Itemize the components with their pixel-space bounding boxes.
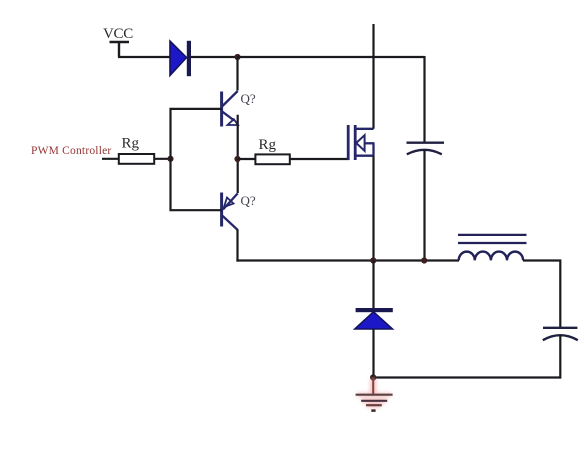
svg-text:Q?: Q?: [241, 91, 256, 106]
wire Rg2 to gate: [290, 158, 349, 160]
svg-text:Q?: Q?: [241, 193, 256, 208]
wire PWM to Rg1: [102, 158, 119, 160]
wire drain up: [372, 24, 374, 129]
wire C2 bottom lead: [559, 335, 561, 379]
svg-text:PWM Controller: PWM Controller: [31, 145, 111, 157]
node F (ground node): [370, 374, 376, 380]
wire Rg1 to base bus: [154, 158, 171, 160]
diode D2: [355, 308, 393, 329]
wire Q2 collector down: [236, 230, 238, 262]
svg-text:VCC: VCC: [103, 26, 133, 42]
wire VCC to D1: [118, 56, 171, 58]
capacitor C1: [407, 143, 445, 155]
node B (driver output): [234, 156, 240, 162]
wire Q1 collector: [236, 57, 238, 91]
ground: [356, 378, 393, 411]
MOSFET U1: [348, 125, 374, 160]
wire switch node to D2: [372, 261, 374, 309]
VCC supply symbol: [110, 42, 130, 57]
diode D1: [170, 41, 191, 76]
wire D1 to node: [191, 56, 238, 58]
wire emitter bus: [237, 115, 239, 193]
capacitor C2: [543, 328, 578, 340]
wire driver out to Rg2: [238, 158, 256, 160]
transistor Q1 (NPN): [222, 91, 238, 127]
inductor L1: [458, 235, 527, 261]
wire bottom return: [373, 376, 561, 378]
wire source down to switch node: [372, 156, 374, 261]
node A (bootstrap rail junction): [234, 54, 240, 60]
transistor Q2 (PNP): [222, 193, 238, 231]
resistor Rg2: [255, 154, 289, 164]
svg-text:Rg: Rg: [259, 137, 277, 153]
resistor Rg1: [119, 154, 154, 164]
wire bottom rail to inductor: [236, 259, 459, 261]
wire base bus: [171, 109, 222, 210]
svg-text:Rg: Rg: [122, 136, 140, 152]
node C (base bus junction): [167, 156, 173, 162]
wire top rail: [238, 56, 425, 58]
node D (switch node): [370, 257, 376, 263]
node E (cap return junction): [421, 257, 427, 263]
wire C1 bottom lead: [423, 150, 425, 261]
wire inductor to C2: [523, 261, 560, 329]
wire C1 top lead: [423, 56, 425, 143]
wire D2 to ground node: [372, 329, 374, 378]
